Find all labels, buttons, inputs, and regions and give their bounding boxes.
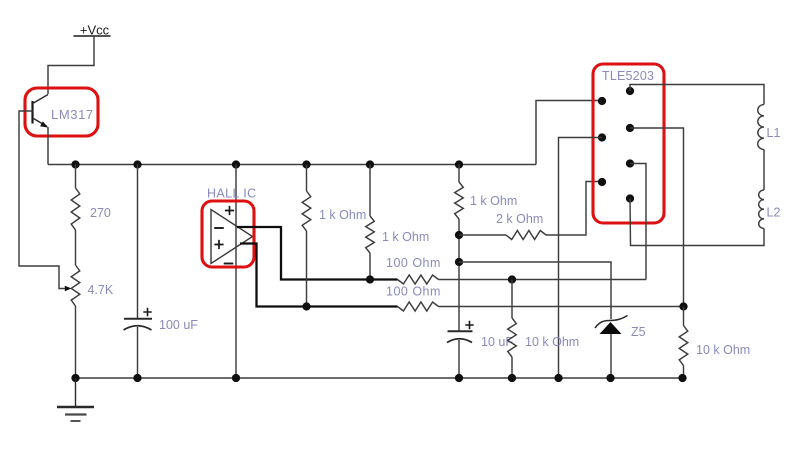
plus mark top (supply+)	[225, 206, 234, 215]
wire R10k-2 to rail	[683, 366, 685, 379]
plus sign of C2	[465, 321, 473, 329]
svg-text:1 k Ohm: 1 k Ohm	[382, 230, 429, 244]
label 10 k Ohm first	[525, 335, 579, 349]
pin TLE right 1	[626, 87, 634, 95]
ground symbol	[57, 378, 94, 421]
label TLE5203	[602, 69, 654, 83]
svg-text:2 k Ohm: 2 k Ohm	[496, 212, 543, 226]
pin TLE left 1	[598, 97, 606, 105]
node Vcc rail / R1k first	[302, 160, 310, 168]
wire zener row to Z5	[459, 262, 611, 319]
label 1 k Ohm first	[319, 208, 366, 222]
label 1 k Ohm second	[382, 230, 429, 244]
svg-text:1 k Ohm: 1 k Ohm	[470, 194, 517, 208]
wire Hall IC supply (vertical through)	[235, 165, 237, 379]
wire C100uF to ground rail	[137, 327, 139, 378]
node R10k-1 / ground rail	[508, 374, 516, 382]
label 100 uF	[159, 318, 198, 332]
label L1	[767, 126, 781, 140]
pin TLE right 4	[626, 194, 634, 202]
wire feedback node to R10k second	[683, 307, 685, 326]
svg-text:1 k Ohm: 1 k Ohm	[319, 208, 366, 222]
svg-text:100 Ohm: 100 Ohm	[386, 256, 441, 270]
node output A row / R10k	[508, 275, 516, 283]
node Vcc rail / R1k third	[455, 160, 463, 168]
wire TLE pin R2 to feedback node	[630, 128, 684, 307]
red highlight box around Hall IC	[202, 201, 254, 267]
svg-text:Z5: Z5	[631, 325, 646, 339]
label 1 k Ohm third	[470, 194, 517, 208]
wire R1k-2 leads	[369, 165, 371, 280]
wire TLE pin R4 to L2 bottom	[630, 199, 764, 246]
inductor L2	[759, 190, 764, 229]
label LM317	[51, 107, 94, 122]
wire to R10k first	[511, 280, 513, 319]
svg-text:270: 270	[90, 206, 111, 220]
node Vcc rail / Hall IC supply	[232, 160, 240, 168]
node R1k-1 / output B row	[302, 302, 310, 310]
wire Vcc rail (top horizontal)	[48, 164, 536, 166]
resistor 2 k Ohm	[506, 231, 546, 240]
wire R10k-1 to rail	[511, 357, 513, 378]
transistor Q1 (LM317 pass device)	[33, 95, 49, 128]
wire TLE pin L2 to ground column	[559, 138, 603, 379]
node feedback / output B row	[679, 302, 687, 310]
wire Vcc rail to TLE pin1	[536, 101, 599, 165]
svg-text:HALL IC: HALL IC	[207, 187, 257, 201]
label 10 k Ohm second	[696, 343, 750, 357]
node C100uF / ground rail	[133, 374, 141, 382]
wire emitter to Vcc rail	[47, 127, 49, 165]
label 100 Ohm lower	[386, 285, 441, 299]
zener diode Z5	[595, 316, 628, 335]
resistor 1 k Ohm (first)	[302, 191, 311, 231]
plus sign of C1	[143, 308, 151, 316]
wire Hall IC output B (thick)	[240, 244, 398, 307]
wire TLE pin R3 to output A row	[630, 164, 646, 280]
wire 2k row	[459, 182, 599, 236]
label 270	[90, 206, 111, 220]
minus mark input 1	[214, 227, 224, 229]
resistor 270	[71, 188, 80, 230]
node Z5 / ground rail	[606, 374, 614, 382]
inductor L1	[758, 105, 764, 150]
pin TLE left 2	[598, 133, 606, 141]
node pot / ground rail	[71, 374, 79, 382]
label 100 Ohm upper	[386, 256, 441, 270]
node Vcc rail / C 100uF	[133, 160, 141, 168]
resistor 1 k Ohm (third)	[455, 182, 464, 219]
wire Vcc to transistor collector	[48, 36, 94, 94]
wire rail to C100uF	[137, 165, 139, 319]
capacitor C2 10uF	[447, 331, 473, 342]
minus mark bottom (supply-)	[224, 263, 234, 265]
plus mark input 2	[214, 240, 223, 249]
power +Vcc label	[74, 23, 111, 38]
node zener row	[455, 258, 463, 266]
pin TLE right 2	[626, 124, 634, 132]
svg-text:10 k Ohm: 10 k Ohm	[525, 335, 579, 349]
wire R270 to pot	[75, 165, 77, 266]
node R1k-3 / 2k row	[455, 231, 463, 239]
pin TLE left 3	[598, 178, 606, 186]
label L2	[767, 206, 781, 220]
resistor 10 k Ohm (first)	[508, 318, 517, 357]
wire pot to ground rail	[75, 306, 77, 378]
svg-text:L1: L1	[767, 126, 781, 140]
pin TLE right 3	[626, 159, 634, 167]
node R10k-2 / ground rail	[678, 374, 686, 382]
potentiometer 4.7K	[71, 265, 80, 306]
svg-text:LM317: LM317	[51, 107, 94, 122]
wire R1k-1 leads	[306, 165, 308, 307]
label 4.7K	[88, 283, 114, 297]
label 10 uF	[481, 335, 513, 349]
wire R1k-3 column down	[458, 219, 460, 332]
svg-text:10 uF: 10 uF	[481, 335, 513, 349]
node R1k-2 / output A row	[366, 275, 374, 283]
node Vcc rail / R 270	[71, 160, 79, 168]
resistor 1 k Ohm (second)	[366, 216, 375, 253]
wire ground rail (bottom horizontal)	[76, 377, 685, 379]
label HALL IC	[207, 187, 257, 201]
node Vcc rail / R1k second	[366, 160, 374, 168]
svg-text:100 uF: 100 uF	[159, 318, 198, 332]
wire L1 to L2	[763, 150, 765, 191]
svg-text:100 Ohm: 100 Ohm	[386, 285, 441, 299]
svg-text:L2: L2	[767, 206, 781, 220]
wire R1k-3 lead top	[458, 165, 460, 183]
svg-text:4.7K: 4.7K	[88, 283, 114, 297]
label Z5	[631, 325, 646, 339]
wire TLE pin R1 to L1 top	[630, 85, 764, 105]
wire Z5 to ground rail	[610, 334, 612, 378]
resistor 10 k Ohm (second)	[679, 326, 688, 366]
svg-text:TLE5203: TLE5203	[602, 69, 654, 83]
wire base of Q1 to wiper	[19, 111, 66, 289]
node C2 / ground rail	[455, 374, 463, 382]
wire Hall IC output A (thick)	[237, 227, 398, 280]
capacitor C1 100uF	[124, 319, 153, 330]
resistor 100 Ohm (upper row)	[398, 275, 439, 284]
svg-text:10 k Ohm: 10 k Ohm	[696, 343, 750, 357]
potentiometer wiper arrow	[65, 286, 72, 292]
node ground column / rail	[554, 374, 562, 382]
red highlight box TLE5203	[593, 64, 664, 223]
red highlight box around LM317	[25, 88, 98, 136]
resistor 100 Ohm (lower row)	[398, 302, 439, 311]
op-amp U1 Hall IC triangle	[211, 210, 253, 264]
wire output A row right	[439, 279, 647, 281]
label 2 k Ohm	[496, 212, 543, 226]
node Hall IC / ground rail	[232, 374, 240, 382]
wire C2 to ground rail	[458, 340, 460, 378]
wire output B row right	[439, 306, 684, 308]
